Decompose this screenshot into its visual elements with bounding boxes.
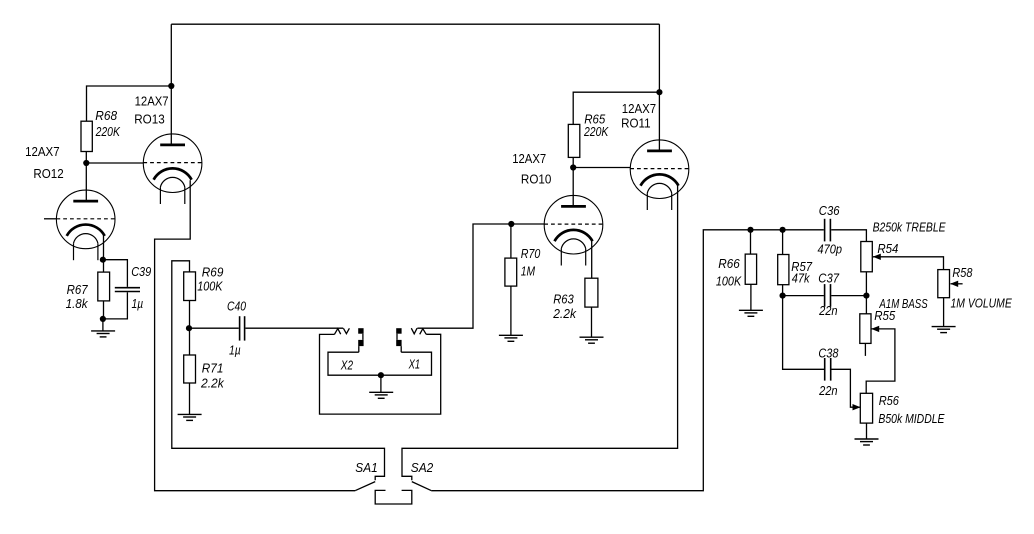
svg-text:C39: C39 xyxy=(131,265,151,279)
label R69 100K xyxy=(197,266,223,294)
svg-text:R55: R55 xyxy=(874,309,895,323)
label R66 100K xyxy=(716,257,742,288)
wire R63 bottom xyxy=(591,307,593,337)
svg-text:X1: X1 xyxy=(408,357,420,371)
ground R63 xyxy=(580,337,604,343)
potentiometer R55 xyxy=(860,314,871,344)
resistor R57 xyxy=(778,255,789,285)
svg-text:1M: 1M xyxy=(521,264,536,278)
wire R67 bottom lead xyxy=(103,301,105,319)
wire R55 wiper to R56 top xyxy=(866,329,895,393)
wire C39 bottom xyxy=(103,292,128,319)
arrow R56 wiper xyxy=(853,404,861,410)
ground R56 xyxy=(855,439,879,445)
wire R54 bottom xyxy=(865,272,867,296)
wire R65 bottom xyxy=(572,157,574,167)
resistor R66 xyxy=(745,254,756,284)
label R54 xyxy=(877,242,898,256)
node plate RO13 junction xyxy=(168,83,174,89)
svg-text:220K: 220K xyxy=(95,125,121,139)
node R57 top xyxy=(780,227,786,233)
label X2 xyxy=(340,358,353,372)
label R63 2.2k xyxy=(552,293,576,322)
svg-text:1M VOLUME: 1M VOLUME xyxy=(951,296,1013,310)
capacitor C36 xyxy=(825,219,831,242)
svg-text:RO13: RO13 xyxy=(134,113,165,127)
wire RO11 grid lead xyxy=(573,167,630,169)
svg-text:2.2k: 2.2k xyxy=(200,377,224,391)
svg-text:C37: C37 xyxy=(818,271,840,285)
node R70 RO10 grid junction xyxy=(508,221,514,227)
wire R71 top xyxy=(189,328,191,355)
connector X2 X1 socket body xyxy=(328,352,432,375)
label tube RO12 xyxy=(25,145,64,181)
resistor R71 xyxy=(184,355,196,383)
wire R65 top to rail xyxy=(573,92,659,124)
switch SA1 blade xyxy=(355,482,375,491)
node R69 R71 C40 junction xyxy=(186,325,192,331)
svg-text:C40: C40 xyxy=(227,300,246,314)
triode RO10 xyxy=(544,195,603,265)
wire RO10 plate lead xyxy=(572,168,574,207)
wire R57 top lead xyxy=(782,230,784,255)
connector X2 contacts xyxy=(358,328,363,352)
wire R56 bottom xyxy=(866,423,868,439)
resistor R69 xyxy=(184,272,196,301)
arrow R58 wiper xyxy=(950,281,958,287)
svg-text:12AX7: 12AX7 xyxy=(512,152,546,166)
label SA2 xyxy=(411,461,433,475)
svg-text:12AX7: 12AX7 xyxy=(622,102,656,116)
node RO11 plate junction xyxy=(656,89,662,95)
wire R54 wiper to R58 xyxy=(873,257,944,270)
wire RO12 plate lead xyxy=(85,163,87,201)
svg-text:47k: 47k xyxy=(792,271,811,285)
node socket ground junction xyxy=(378,372,384,378)
wire to C40 xyxy=(189,327,239,329)
capacitor C39 xyxy=(115,288,140,292)
wire R57 bottom lead xyxy=(782,285,784,296)
label R65 220K xyxy=(583,113,609,140)
wire RO10 cathode to R63 xyxy=(591,240,593,278)
node R67 ground junction xyxy=(100,316,106,322)
resistor R67 xyxy=(98,272,110,301)
label R70 1M xyxy=(521,247,541,278)
wire R69 bottom xyxy=(189,301,191,329)
resistor R70 xyxy=(505,258,517,286)
ground X connector xyxy=(369,392,393,398)
wire SA2 pole to tone stack xyxy=(431,230,824,491)
label tube RO13 xyxy=(134,94,168,126)
label tube RO11 xyxy=(621,102,656,131)
wire R69 top to SA1 contact xyxy=(172,261,385,480)
svg-text:R70: R70 xyxy=(521,247,541,261)
wire C36 to R54 top xyxy=(831,230,866,242)
wire R71 bottom xyxy=(189,383,191,414)
svg-text:22n: 22n xyxy=(818,304,837,318)
node RO12 cathode xyxy=(100,257,106,263)
wire B+ top rail xyxy=(171,23,659,25)
label B250k TREBLE xyxy=(873,220,947,234)
capacitor C37 xyxy=(825,284,831,307)
svg-text:C36: C36 xyxy=(819,204,840,218)
wire R58 wiper stub xyxy=(951,283,963,285)
wire R58 bottom xyxy=(943,298,945,327)
svg-text:220K: 220K xyxy=(583,125,609,139)
node R57 C37 C38 junction xyxy=(780,293,786,299)
svg-text:R63: R63 xyxy=(553,293,574,307)
svg-text:2.2k: 2.2k xyxy=(552,307,576,321)
wire RO11 cathode to SA2 contact xyxy=(402,186,678,480)
wire R68 bottom xyxy=(85,152,87,164)
svg-text:R58: R58 xyxy=(952,266,972,280)
wire C37 bus xyxy=(783,295,867,297)
wire B+ left drop xyxy=(170,24,172,86)
arrow R55 wiper xyxy=(871,326,879,332)
node RO12 plate / RO13 grid xyxy=(83,160,89,166)
label R71 2.2k xyxy=(200,362,224,391)
wire ground stub X xyxy=(380,375,382,392)
label A1M BASS xyxy=(879,297,929,311)
potentiometer R56 xyxy=(860,393,872,423)
wire to C39 top xyxy=(103,260,128,287)
node RO10 plate / RO11 grid xyxy=(570,164,576,170)
wire C38 branch xyxy=(783,296,860,408)
ground R71 xyxy=(178,414,202,420)
svg-text:R66: R66 xyxy=(718,257,740,271)
switch gang link xyxy=(375,490,412,504)
capacitor C40 xyxy=(240,316,245,340)
wire R70 bottom xyxy=(510,286,512,335)
svg-text:B50k MIDDLE: B50k MIDDLE xyxy=(878,412,945,426)
ground R66 xyxy=(739,310,763,316)
resistor R68 xyxy=(81,121,92,151)
svg-text:B250k TREBLE: B250k TREBLE xyxy=(873,220,947,234)
svg-text:100K: 100K xyxy=(197,279,223,293)
ground R58 xyxy=(932,327,956,333)
wire R67 top lead xyxy=(103,260,105,272)
label R55 xyxy=(874,309,895,323)
capacitor C38 xyxy=(825,358,831,381)
svg-text:12AX7: 12AX7 xyxy=(25,145,60,159)
wire RO12 grid stub xyxy=(44,218,56,220)
label 1M VOLUME xyxy=(951,296,1013,310)
wire R66 top lead xyxy=(750,230,752,254)
triode RO11 xyxy=(630,140,689,210)
svg-text:SA2: SA2 xyxy=(411,461,433,475)
wire X1 plug zigzag xyxy=(411,328,426,334)
svg-text:R56: R56 xyxy=(879,394,899,408)
label X1 xyxy=(408,357,420,371)
svg-text:RO10: RO10 xyxy=(521,173,552,187)
svg-text:R69: R69 xyxy=(202,266,224,280)
wire RO10 grid lead xyxy=(511,223,544,225)
node R66 top xyxy=(747,227,753,233)
wire RO12 cathode lead xyxy=(103,235,105,260)
label R56 xyxy=(879,394,899,408)
ground R67 xyxy=(91,331,115,337)
label C38 22n xyxy=(818,346,838,398)
svg-text:1µ: 1µ xyxy=(229,343,241,357)
wire ground stub R67 xyxy=(102,319,104,331)
wire B+ right drop xyxy=(658,24,660,92)
svg-text:12AX7: 12AX7 xyxy=(135,94,169,108)
wire RO13 grid lead xyxy=(86,162,143,164)
svg-text:1.8k: 1.8k xyxy=(66,297,89,311)
label R57 47k xyxy=(791,260,813,285)
svg-text:X2: X2 xyxy=(340,358,353,372)
svg-text:22n: 22n xyxy=(818,384,837,398)
connector X1 contacts xyxy=(396,328,401,352)
label R67 1.8k xyxy=(66,283,89,311)
svg-text:RO11: RO11 xyxy=(621,117,651,131)
svg-text:470p: 470p xyxy=(818,243,843,257)
potentiometer R54 xyxy=(861,242,873,272)
svg-text:RO12: RO12 xyxy=(33,167,63,181)
node C37 R54 R55 junction xyxy=(863,293,869,299)
triode RO13 xyxy=(143,134,202,204)
wire R70 top xyxy=(510,224,512,258)
svg-text:R67: R67 xyxy=(67,283,89,297)
label C39 1µ xyxy=(131,265,151,311)
arrow R54 wiper xyxy=(873,254,881,260)
wire C40 to X2 plug xyxy=(245,327,343,329)
resistor R63 xyxy=(585,278,598,307)
potentiometer R58 xyxy=(938,270,950,298)
wire R55 bottom stub xyxy=(864,343,866,356)
label B50k MIDDLE xyxy=(878,412,945,426)
ground R70 xyxy=(499,335,523,341)
svg-text:R71: R71 xyxy=(202,362,224,376)
switch SA2 blade xyxy=(412,482,431,491)
wire R68 top to rail xyxy=(87,86,172,121)
label C37 22n xyxy=(818,271,840,318)
svg-text:C38: C38 xyxy=(818,346,838,360)
label R68 220K xyxy=(95,109,121,139)
label C40 1µ xyxy=(227,300,246,358)
wire rail to RO11 plate xyxy=(658,92,660,151)
label SA1 xyxy=(355,461,377,475)
label C36 470p xyxy=(818,204,843,256)
resistor R65 xyxy=(568,124,580,157)
svg-text:SA1: SA1 xyxy=(355,461,377,475)
wire rail to RO13 plate xyxy=(170,86,172,145)
wire X1 plug to RO10 grid xyxy=(417,224,511,328)
svg-text:R68: R68 xyxy=(95,109,117,123)
svg-text:100K: 100K xyxy=(716,274,742,288)
wire R66 bottom xyxy=(750,284,752,310)
wire R55 top xyxy=(865,296,867,314)
label R58 xyxy=(952,266,972,280)
label tube RO10 xyxy=(512,152,551,187)
connector shield box xyxy=(320,334,441,414)
triode RO12 xyxy=(56,190,115,260)
svg-text:1µ: 1µ xyxy=(132,297,144,311)
wire RO13 cathode to SA1 pole xyxy=(155,180,356,491)
wire X2 plug zigzag xyxy=(334,328,349,334)
